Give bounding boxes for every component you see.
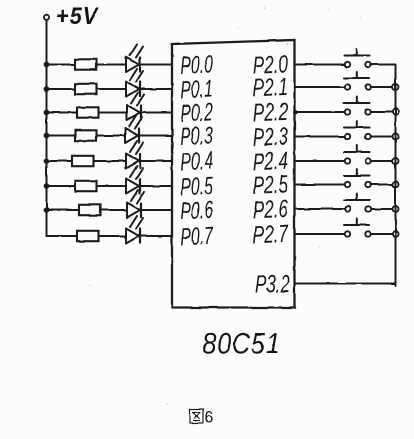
wire bus to resistor R3 [47, 112, 78, 114]
pin label P2.3 [252, 122, 288, 152]
pin label P3.2 [255, 270, 290, 298]
junction node row 5 on common bus [393, 158, 399, 164]
LED D5 light arrows [130, 141, 143, 154]
wire bus to resistor R8 [47, 235, 78, 237]
pin label P0.6 [180, 196, 213, 225]
LED D4 [125, 128, 139, 143]
wire resistor R3 to LED D3 [99, 112, 128, 114]
pin label P2.6 [252, 195, 288, 225]
resistor R2 [75, 84, 97, 94]
wire bus to resistor R4 [47, 135, 76, 137]
LED D6 light arrows [130, 166, 143, 179]
junction node row 2 on common bus [393, 84, 399, 90]
junction node row 8 on common bus [393, 231, 399, 237]
wire P2.7 pin to switch S8 [295, 233, 345, 235]
LED D3 light arrows [131, 93, 144, 106]
wire resistor R5 to LED D5 [94, 160, 127, 162]
switch S4 (push button) [344, 121, 371, 139]
wire bus to resistor R2 [47, 88, 76, 90]
LED D4 light arrows [129, 116, 142, 129]
junction blob at P2.2 pin [293, 110, 298, 115]
pin label P0.0 [180, 51, 213, 80]
wire bus to resistor R7 [47, 209, 80, 211]
scan speckles [89, 7, 361, 405]
wire switch S6 to common bus [371, 184, 396, 186]
pin label P0.5 [180, 172, 213, 201]
wire P2.4 pin to switch S5 [295, 160, 345, 162]
resistor R4 [75, 130, 97, 140]
wire P2.1 pin to switch S2 [295, 86, 345, 88]
wire LED D3 to P0.2 pin [141, 112, 172, 114]
svg-text:P0.6: P0.6 [180, 196, 213, 225]
resistor R6 [75, 181, 97, 191]
resistor R8 [77, 231, 99, 241]
LED D8 light arrows [130, 216, 143, 229]
+5V label [56, 2, 99, 29]
pin label P2.1 [252, 73, 288, 103]
pin label P0.3 [180, 122, 213, 151]
wire switch S3 to common bus [371, 111, 396, 113]
pin label P2.5 [252, 170, 288, 200]
junction node row 3 on common bus [393, 109, 399, 115]
junction node row 6 on +5V bus [44, 183, 50, 189]
wire LED D8 to P0.7 pin [140, 235, 172, 237]
+5V bus wire (left vertical) [46, 21, 48, 237]
junction node row 2 on +5V bus [44, 86, 50, 92]
junction node row 7 on common bus [393, 206, 399, 212]
switch S7 (push button) [344, 194, 371, 212]
LED D7 [127, 203, 141, 218]
switch S6 (push button) [344, 169, 371, 187]
switch S3 (push button) [344, 97, 371, 115]
pin label P0.1 [180, 75, 213, 104]
resistor R3 [77, 107, 99, 117]
switch S5 (push button) [344, 146, 371, 164]
wire switch S8 to common bus [371, 233, 396, 235]
junction node row 4 on +5V bus [44, 133, 50, 139]
junction node row 6 on common bus [393, 182, 399, 188]
LED D2 [126, 82, 140, 97]
switch S8 (push button) [344, 219, 371, 237]
wire resistor R4 to LED D4 [97, 135, 126, 137]
common key bus wire (right vertical) [395, 65, 397, 286]
wire bus to resistor R5 [47, 160, 73, 162]
wire bus to resistor R6 [47, 185, 76, 187]
resistor R1 [75, 59, 97, 69]
pin label P0.7 [180, 222, 214, 251]
wire LED D4 to P0.3 pin [139, 135, 172, 137]
resistor R7 [79, 205, 101, 215]
wire LED D7 to P0.6 pin [141, 209, 172, 211]
wire LED D6 to P0.5 pin [140, 185, 172, 187]
wire P2.3 pin to switch S4 [295, 136, 345, 138]
wire switch S5 to common bus [371, 160, 396, 162]
wire LED D2 to P0.1 pin [140, 88, 172, 90]
LED D3 [127, 105, 141, 120]
svg-text:P3.2: P3.2 [255, 270, 290, 298]
wire resistor R8 to LED D8 [99, 235, 127, 237]
wire P2.0 pin to switch S1 [295, 64, 345, 66]
wire bus to resistor R1 [47, 64, 76, 66]
pin label P2.4 [252, 147, 288, 177]
wire switch S7 to common bus [371, 208, 396, 210]
junction node row 7 on +5V bus [44, 207, 50, 213]
svg-text:P2.7: P2.7 [252, 220, 289, 250]
junction node row 4 on common bus [393, 134, 399, 140]
+5V supply terminal [44, 15, 49, 20]
pin label P0.2 [180, 99, 213, 128]
svg-text:+5V: +5V [56, 2, 99, 29]
junction node row 5 on +5V bus [44, 158, 50, 164]
wire resistor R2 to LED D2 [97, 88, 127, 90]
wire P2.5 pin to switch S6 [295, 184, 345, 186]
LED D8 [126, 229, 140, 244]
pin label P0.4 [180, 147, 213, 176]
resistor R5 [72, 156, 94, 166]
LED D7 light arrows [131, 190, 144, 203]
pin label P2.7 [252, 220, 289, 250]
wire resistor R7 to LED D7 [101, 209, 128, 211]
svg-text:6: 6 [204, 408, 213, 427]
junction node row 3 on +5V bus [44, 110, 50, 116]
wire resistor R1 to LED D1 [97, 64, 127, 66]
junction node row 1 on +5V bus [44, 62, 50, 68]
LED D2 light arrows [130, 69, 143, 82]
wire resistor R6 to LED D6 [97, 185, 127, 187]
LED D5 [126, 154, 140, 169]
svg-text:80C51: 80C51 [203, 326, 281, 360]
svg-text:P0.7: P0.7 [180, 222, 214, 251]
figure caption 图6 [190, 408, 213, 427]
wire switch S1 to common bus [371, 64, 396, 66]
switch S2 (push button) [344, 72, 371, 90]
wire LED D1 to P0.0 pin [140, 64, 172, 66]
pin label P2.0 [252, 50, 288, 80]
LED D6 [126, 179, 140, 194]
wire common bus to P3.2 pin [295, 283, 396, 285]
LED D1 light arrows [130, 45, 143, 58]
wire P2.6 pin to switch S7 [295, 208, 345, 210]
wire LED D5 to P0.4 pin [140, 160, 172, 162]
pin label P2.2 [252, 98, 288, 128]
switch S1 (push button) [344, 49, 371, 67]
wire P2.2 pin to switch S3 [295, 111, 345, 113]
microcontroller U1 80C51 box [172, 40, 295, 308]
wire switch S2 to common bus [371, 86, 396, 88]
wire switch S4 to common bus [371, 136, 396, 138]
chip name 80C51 [203, 326, 281, 360]
LED D1 [126, 57, 140, 72]
